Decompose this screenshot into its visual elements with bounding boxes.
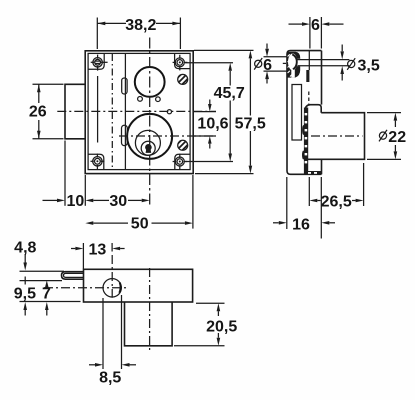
guide bump upper — [122, 78, 127, 94]
faceplate outline — [287, 51, 322, 175]
dim ø6 (left leader) — [254, 44, 287, 84]
case back wall lower — [321, 159, 323, 174]
dim 57,5 — [194, 50, 266, 173]
cylinder housing from below — [125, 302, 173, 346]
hatched wall band (section) — [302, 108, 308, 175]
dim 16 — [273, 177, 335, 239]
svg-text:26,5: 26,5 — [321, 193, 352, 210]
svg-text:26: 26 — [29, 104, 47, 121]
dim 10 and 30 — [43, 141, 150, 211]
dim 45,7 — [185, 63, 245, 162]
keyhole — [145, 144, 152, 153]
screw hole bottom-left — [91, 154, 105, 170]
horizontal centerline through bolt y=111.4 — [57, 110, 216, 112]
dim 7 leader — [42, 280, 51, 315]
dim 26,5 — [309, 163, 363, 210]
guide bump lower — [122, 125, 128, 145]
case front wall line — [308, 51, 310, 70]
corner tab bottom-right — [175, 154, 190, 169]
case seen from below — [84, 269, 193, 302]
small hole left of centerline — [138, 97, 143, 102]
svg-text:6: 6 — [263, 57, 272, 74]
aux line A (bolt top ext) — [20, 270, 65, 272]
dim 26 — [29, 84, 64, 139]
dim ø22 — [367, 113, 406, 160]
bottom hatched band — [305, 171, 322, 175]
bolt tip inner — [64, 273, 84, 277]
fixing screw head upper (hatched) — [175, 70, 191, 91]
cylinder body circle — [135, 130, 160, 155]
svg-text:22: 22 — [388, 129, 406, 146]
dim 20,5 — [174, 303, 237, 346]
slot recess in faceplate — [292, 85, 302, 141]
follower crosshair horizontal — [44, 287, 128, 289]
svg-text:6: 6 — [311, 17, 320, 34]
svg-text:13: 13 — [89, 242, 107, 259]
housing centerline vertical — [149, 268, 151, 352]
lock case outer outline — [85, 51, 193, 174]
dim 8,5 — [89, 295, 136, 387]
vertical centerline through follower/cylinder — [149, 38, 151, 206]
bolt tip outer (stadium) — [62, 272, 84, 280]
dim ø3,5 — [340, 45, 379, 81]
svg-text:20,5: 20,5 — [206, 318, 237, 335]
svg-text:10: 10 — [67, 193, 85, 210]
screw hole top-left — [91, 55, 108, 71]
dim 38,2 — [97, 17, 180, 49]
dim 50 — [85, 175, 193, 232]
faceplate edge line — [124, 53, 126, 169]
case front wall hidden line (dashed) — [308, 92, 310, 105]
vertical centerline nightlatch axis (dash-dot) — [111, 54, 113, 169]
screw hole top-right — [173, 55, 188, 71]
cylinder collar — [305, 105, 321, 113]
follower circle (bottom view) — [103, 279, 121, 297]
case back wall upper — [321, 51, 323, 105]
follower crosshair vertical — [111, 255, 113, 298]
svg-text:9,5: 9,5 — [14, 285, 36, 302]
small hole at case middle right — [167, 110, 171, 114]
aux line B (bolt bottom ext) — [20, 280, 63, 282]
dim 10,6 — [193, 100, 229, 149]
dim 9,5 leader — [14, 285, 36, 315]
dim 13 — [71, 242, 125, 269]
svg-text:16: 16 — [292, 216, 310, 233]
svg-text:45,7: 45,7 — [214, 85, 245, 102]
latch bolt (front view) — [65, 84, 85, 139]
corner tab top-left — [88, 53, 104, 69]
svg-text:4,8: 4,8 — [14, 239, 36, 256]
svg-text:8,5: 8,5 — [99, 370, 121, 387]
corner tab bottom-left — [88, 154, 104, 169]
screw centerline left (thin) — [97, 76, 99, 143]
cylinder rose (large bottom circle) — [127, 114, 172, 159]
corner tab top-right — [175, 53, 191, 68]
svg-text:10,6: 10,6 — [197, 116, 228, 133]
screw hole bottom-right — [173, 154, 188, 170]
cylinder plug circle — [141, 141, 155, 155]
svg-text:30: 30 — [109, 193, 127, 210]
dim 6 (top) — [289, 17, 344, 49]
svg-text:3,5: 3,5 — [358, 58, 380, 75]
svg-text:38,2: 38,2 — [125, 17, 156, 34]
svg-text:57,5: 57,5 — [235, 116, 266, 133]
cylinder (side view) — [307, 113, 365, 160]
cylinder centerline (side view) — [311, 135, 363, 137]
aux line C (case bottom ext) — [20, 301, 81, 303]
horizontal centerline through cylinder y=136 — [119, 135, 216, 137]
dim 4,8 leader — [14, 239, 36, 284]
fixing screw head lower (hatched) — [175, 136, 191, 157]
svg-text:7: 7 — [42, 285, 51, 302]
hole ø3,5 edge lines — [298, 59, 350, 61]
follower hole (large top circle) — [135, 67, 165, 97]
small hole right of centerline — [156, 97, 161, 102]
follower flat chord — [119, 283, 120, 293]
countersunk screw tab (section, hatched) — [287, 52, 301, 78]
black slot on case wall — [306, 70, 309, 82]
lock case inner outline — [88, 53, 190, 169]
svg-text:50: 50 — [131, 215, 149, 232]
